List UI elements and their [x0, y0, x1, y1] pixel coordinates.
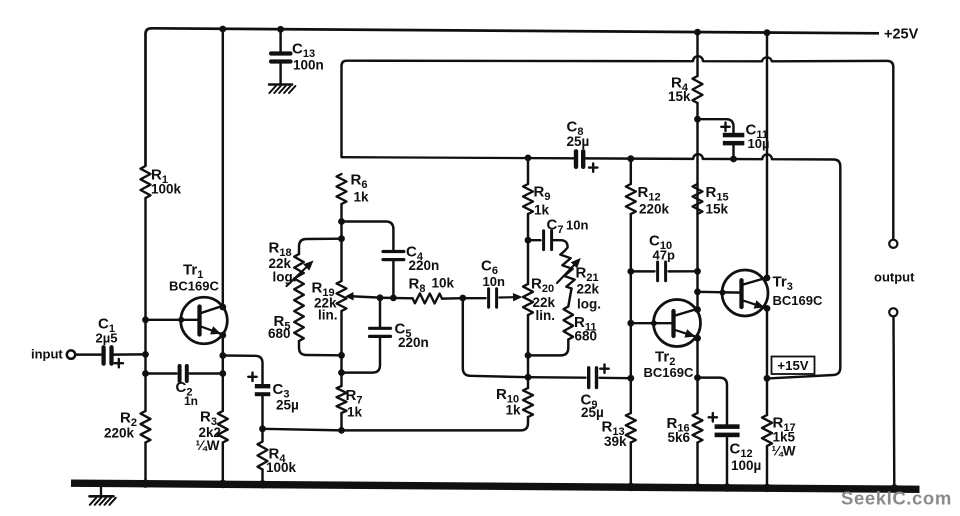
svg-text:100µ: 100µ	[731, 458, 761, 473]
svg-text:15k: 15k	[706, 202, 729, 217]
svg-text:log.: log.	[273, 270, 297, 285]
svg-text:+25V: +25V	[884, 27, 919, 43]
svg-text:1k5: 1k5	[773, 430, 796, 445]
svg-text:25µ: 25µ	[567, 134, 590, 149]
svg-text:input: input	[31, 347, 63, 362]
svg-text:1n: 1n	[184, 394, 198, 408]
svg-text:BC169C: BC169C	[169, 279, 219, 294]
svg-text:25µ: 25µ	[276, 398, 299, 413]
svg-text:680: 680	[268, 326, 291, 341]
svg-text:log.: log.	[577, 297, 601, 312]
svg-text:1k: 1k	[354, 190, 370, 205]
svg-text:15k: 15k	[668, 89, 691, 104]
svg-text:1k: 1k	[534, 203, 550, 218]
svg-text:10n: 10n	[483, 274, 505, 289]
svg-text:220k: 220k	[104, 426, 135, 441]
svg-text:680: 680	[575, 329, 598, 344]
svg-text:5k6: 5k6	[668, 430, 691, 445]
svg-text:SeekIC.com: SeekIC.com	[841, 488, 952, 509]
svg-text:220k: 220k	[639, 202, 670, 217]
svg-text:47p: 47p	[653, 248, 675, 263]
svg-text:100n: 100n	[293, 58, 324, 73]
svg-text:+15V: +15V	[777, 358, 808, 373]
svg-text:100k: 100k	[266, 460, 297, 475]
svg-text:39k: 39k	[604, 434, 627, 449]
svg-text:10k: 10k	[432, 276, 455, 291]
svg-text:¼W: ¼W	[772, 444, 796, 459]
svg-text:lin.: lin.	[318, 308, 338, 323]
svg-text:output: output	[874, 270, 915, 285]
svg-text:BC169C: BC169C	[644, 365, 694, 380]
svg-text:220n: 220n	[409, 258, 440, 273]
svg-text:100k: 100k	[151, 182, 182, 197]
svg-text:10n: 10n	[566, 218, 588, 233]
svg-text:¼W: ¼W	[196, 438, 220, 453]
svg-text:220n: 220n	[398, 335, 429, 350]
svg-text:22k: 22k	[577, 282, 600, 297]
svg-text:25µ: 25µ	[581, 405, 604, 420]
svg-text:1k: 1k	[506, 403, 522, 418]
svg-text:BC169C: BC169C	[773, 293, 823, 308]
svg-text:2µ5: 2µ5	[96, 331, 118, 346]
svg-text:lin.: lin.	[536, 308, 556, 323]
svg-text:1k: 1k	[347, 405, 363, 420]
